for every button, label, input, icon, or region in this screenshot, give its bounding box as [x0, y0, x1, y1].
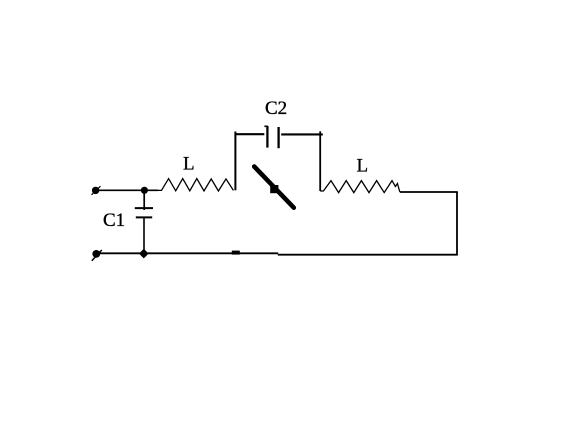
wire C2 left horizontal — [235, 133, 265, 135]
svg-text:L: L — [183, 154, 195, 175]
inductor L2 zigzag — [320, 181, 400, 193]
node junction bottom (C1 bottom) — [139, 249, 149, 259]
wire C2 right horizontal — [281, 133, 323, 135]
wire bottom right segment — [278, 254, 458, 256]
wire bottom left segment — [96, 252, 278, 254]
terminal T1 (top-left input) — [92, 186, 101, 195]
wire C1 lower lead — [143, 217, 145, 253]
arrow (adjustment arrow across C2) — [254, 167, 294, 208]
inductor L1 zigzag — [158, 179, 233, 191]
terminal T2 (bottom-left input) — [92, 250, 102, 261]
svg-text:C2: C2 — [265, 98, 287, 119]
wire right vertical — [456, 192, 458, 255]
svg-text:L: L — [357, 156, 369, 177]
node junction top (C1 top) — [141, 187, 148, 194]
wire vertical down from C2 right — [319, 131, 321, 191]
capacitor C1 plates — [135, 208, 153, 217]
wire vertical up to C2 left — [234, 132, 236, 191]
wire right horizontal — [400, 191, 458, 193]
svg-text:C1: C1 — [103, 210, 125, 231]
wire top-left horizontal — [96, 189, 158, 191]
wire C1 upper lead — [143, 190, 145, 210]
junction blob on bottom wire — [232, 251, 240, 255]
capacitor C2 plates — [264, 126, 278, 148]
